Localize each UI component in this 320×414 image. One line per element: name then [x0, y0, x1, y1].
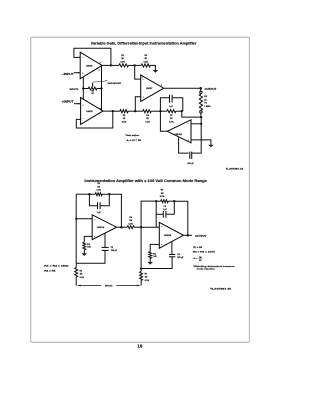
wire: bottom chain junction up to A3 non-inverting input	[135, 97, 140, 112]
node: R6 right end	[173, 200, 175, 202]
resistor R4 1M 0.1% (interstage)	[127, 216, 134, 229]
op-amp A3 LM107 (difference amplifier)	[141, 75, 164, 102]
svg-text:−INPUT: −INPUT	[62, 73, 75, 76]
ground (R5 return)	[147, 262, 153, 265]
node: B2 output	[187, 234, 190, 237]
svg-text:0.1%: 0.1%	[122, 121, 127, 123]
wire: A1 output edge down to gain pot right end	[101, 66, 103, 89]
wire: summing junction up to R6 feedback row	[141, 201, 156, 227]
resistor R6 1M 0.1% (B2 feedback)	[156, 190, 174, 203]
svg-text:R3: R3	[87, 244, 89, 246]
wire: feedback left rail	[75, 194, 77, 263]
wire: B2 output lead	[183, 234, 192, 236]
node: R6 left end	[155, 200, 157, 202]
node: R2 left end	[88, 193, 90, 195]
svg-text:0.1%: 0.1%	[80, 277, 85, 279]
svg-text:+INPUT: +INPUT	[62, 100, 75, 103]
svg-text:16: 16	[137, 344, 143, 349]
svg-text:0.1%: 0.1%	[128, 223, 133, 225]
svg-text:R6: R6	[199, 257, 201, 259]
svg-text:0.1%: 0.1%	[96, 190, 101, 192]
svg-text:LM101A: LM101A	[164, 234, 172, 237]
svg-text:R7: R7	[145, 274, 147, 276]
svg-text:LM102: LM102	[86, 111, 93, 113]
node: C4 return junction	[140, 267, 142, 269]
node: pot bottom junction	[200, 116, 202, 118]
wire: B1 output to R4	[117, 226, 128, 228]
svg-text:*Gain adjust: *Gain adjust	[125, 134, 139, 137]
svg-text:1M: 1M	[80, 274, 83, 276]
label -INPUT with lead wire	[62, 72, 81, 76]
svg-text:0.1%: 0.1%	[169, 121, 174, 123]
resistor R5 10K (B2 non-inverting bias)	[149, 244, 160, 262]
page border frame (decorative)	[31, 37, 250, 342]
svg-text:0.1%: 0.1%	[145, 280, 150, 282]
node: B1 output	[120, 226, 123, 229]
svg-text:1M: 1M	[97, 186, 100, 188]
op-amp A2 LM102 (bottom input follower)	[81, 98, 103, 125]
svg-text:10K: 10K	[87, 247, 91, 249]
potentiometer R1 1K gain adjust	[83, 83, 101, 95]
wire: A2 output to R5	[113, 110, 120, 112]
wire: R6 right end to B2 output rail	[174, 201, 188, 235]
svg-text:R1 = R4 = 1MΩ: R1 = R4 = 1MΩ	[44, 264, 69, 267]
svg-text:TL/H/7887-34: TL/H/7887-34	[226, 167, 245, 170]
svg-text:1 MEG: 1 MEG	[204, 106, 211, 108]
svg-text:10K: 10K	[153, 256, 157, 258]
node: output	[199, 87, 202, 90]
node: A1 output	[110, 64, 112, 66]
svg-text:GAIN ADJUST: GAIN ADJUST	[108, 82, 122, 85]
svg-text:150 pF: 150 pF	[111, 250, 118, 252]
wire: B1 inverting input from feedback node	[76, 218, 92, 220]
node: pot right end	[100, 87, 102, 89]
note: left resistor matching	[44, 264, 69, 272]
label +INPUT with lead wire	[62, 100, 81, 104]
wire: A4 inverting input to junction	[191, 123, 201, 125]
node: A2 output	[112, 110, 114, 112]
svg-text:Instrumentation Amplifier with: Instrumentation Amplifier with ± 100 Vol…	[84, 179, 207, 183]
resistor R3 10K (B1 non-inverting bias)	[83, 236, 92, 253]
svg-text:LM101A: LM101A	[97, 226, 105, 229]
svg-text:INPUTS: INPUTS	[105, 286, 113, 288]
node: A4 inverting input junction	[200, 123, 202, 125]
wire: A1 lower pin to gain pot left end	[82, 77, 84, 89]
note: right gain equations	[193, 247, 236, 271]
capacitor C1 1uF across R2	[89, 194, 109, 214]
wire: A1 output to R3	[111, 64, 119, 66]
svg-text:1M: 1M	[145, 277, 148, 279]
svg-text:LM102: LM102	[86, 65, 93, 67]
svg-text:Variable Gain, Differential-In: Variable Gain, Differential-Input Instru…	[91, 41, 197, 45]
resistor R4 2K 0.1%	[141, 54, 150, 67]
ground (A4 non-inverting input)	[208, 145, 214, 148]
wire: step down to pot bottom rail	[182, 111, 201, 117]
node: R7/C1 right junction	[181, 110, 183, 112]
svg-text:R2 = R5: R2 = R5	[44, 270, 57, 272]
node: pot left end	[82, 87, 84, 89]
svg-text:R1 = R5: R1 = R5	[193, 247, 203, 249]
resistor R2 1M 0.1% (B1 feedback)	[76, 183, 109, 196]
resistor R3 2K 0.1%	[119, 55, 129, 67]
svg-text:150 pF: 150 pF	[187, 163, 194, 165]
op-amp B2 LM101A (output amplifier)	[159, 222, 183, 248]
svg-text:INPUTS: INPUTS	[70, 89, 80, 91]
ground (R3 return)	[82, 253, 88, 256]
resistor R7 1M 0.1% (input)	[140, 272, 150, 286]
svg-text:1M: 1M	[161, 193, 164, 195]
wire: A1 feedback loop output to inverting input	[74, 48, 111, 65]
wire: gain pot left end down to A2 upper edge	[82, 89, 84, 100]
node: B2 summing junction	[140, 226, 142, 228]
svg-text:1M: 1M	[129, 220, 132, 222]
svg-text:0.1%: 0.1%	[160, 196, 165, 198]
wire: R7 to step junction	[176, 110, 182, 112]
wire: R2 right end to B1 output rail	[109, 194, 121, 227]
wire: A4 output to bottom chain junction	[160, 111, 167, 131]
wire: R3 to R4	[129, 64, 142, 66]
capacitor C2 150 pF (B1 compensation) to summing rail	[76, 233, 118, 263]
svg-text:*Matching determines common: *Matching determines common	[193, 265, 235, 268]
svg-text:0.1%: 0.1%	[145, 121, 150, 123]
label GAIN ADJUST with leader line	[93, 80, 122, 85]
resistor R7 2K 0.1%	[167, 110, 176, 124]
capacitor C4 150 pF (B2 compensation) to summing rail	[141, 242, 184, 269]
resistor R5 2K 0.1%	[120, 110, 128, 124]
svg-text:R1: R1	[199, 260, 201, 262]
capacitor C3 1uF across R6	[156, 201, 174, 218]
wire: summing rail down to R7	[140, 227, 142, 271]
wire: junction down to A4 inverting input wire	[200, 117, 202, 124]
svg-text:150 pF: 150 pF	[177, 257, 184, 259]
op-amp B1 LM101A (inverting amplifier)	[92, 215, 116, 240]
label INPUTS with dimension arrows	[77, 285, 141, 288]
wire: C3 left rail to inverting input wire	[155, 214, 157, 227]
ground (R4 return)	[153, 70, 159, 73]
op-amp A1 LM102 (top input follower)	[80, 52, 102, 78]
node: R2 right end	[108, 193, 110, 195]
wire: R5 to R6	[128, 110, 143, 112]
wire: junction down to A3 inverting input	[135, 65, 141, 79]
op-amp A4 LM101A (leftward gain amplifier)	[167, 120, 191, 143]
capacitor C2 150 pF (A4 compensation)	[179, 124, 202, 165]
svg-text:R4 = R6 = 1000: R4 = R6 = 1000	[193, 251, 216, 254]
note: gain adjust formula	[125, 134, 142, 142]
resistor R1 1M 0.1% (input)	[75, 263, 85, 285]
svg-text:TL/H/7887-35: TL/H/7887-35	[210, 289, 233, 291]
potentiometer R8 1K TO 1 MEG (gain set)	[199, 88, 211, 117]
svg-text:C3: C3	[164, 206, 166, 208]
svg-text:Aᵥ = 10⁻⁴ R8: Aᵥ = 10⁻⁴ R8	[127, 139, 142, 142]
svg-text:mode rejection: mode rejection	[197, 268, 216, 271]
wire: A2 feedback loop output to inverting input	[76, 111, 113, 128]
svg-text:LM101A: LM101A	[175, 133, 183, 136]
resistor R6 2K 0.1%	[143, 110, 152, 124]
wire: A4 non-inverting input to ground	[191, 140, 211, 145]
wire: R6 to R7	[151, 110, 167, 112]
svg-text:0.1%: 0.1%	[120, 61, 125, 63]
svg-text:TO: TO	[204, 103, 207, 105]
node: A4 output junction	[159, 110, 161, 112]
wire: A3 output to output node	[164, 87, 201, 89]
capacitor C1 1uF across R7	[160, 95, 182, 111]
svg-text:0.1%: 0.1%	[144, 61, 149, 63]
node: A3 inverting input junction	[134, 64, 136, 66]
svg-text:OUTPUT: OUTPUT	[195, 234, 207, 238]
node: A3 non-inverting junction	[134, 110, 136, 112]
wire: gain pot right end down to A2 output edge	[101, 89, 103, 111]
wire: R4 to B2 summing junction	[134, 226, 159, 228]
svg-text:LM107: LM107	[146, 88, 153, 90]
node: B1 summing junction	[75, 218, 77, 220]
wire: R4 to ground	[150, 65, 155, 70]
svg-text:OUTPUT: OUTPUT	[205, 87, 217, 91]
